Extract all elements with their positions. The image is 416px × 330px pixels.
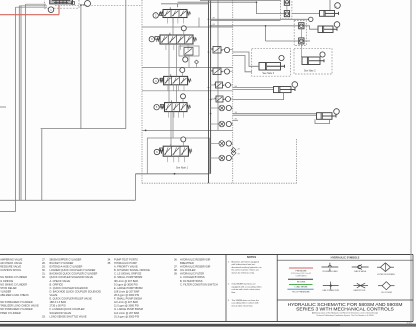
svg-text:cushion with check valve retur: cushion with check valve return [232,288,260,291]
svg-text:See Note 3: See Note 3 [263,72,275,75]
svg-text:42 L/min @ 207 BAR: 42 L/min @ 207 BAR [114,300,138,304]
svg-text:RETURN: RETURN [297,281,306,283]
svg-text:28.3 gpm @ 3000 PSI: 28.3 gpm @ 3000 PSI [114,293,139,297]
svg-text:28.: 28. [42,261,46,265]
svg-text:NG SWING CYLINDER: NG SWING CYLINDER [0,282,27,286]
svg-text:F. LOADER QUICK COUPLER: F. LOADER QUICK COUPLER [50,307,85,311]
svg-text:LOAD SENSE SHUTTLE VALVE: LOAD SENSE SHUTTLE VALVE [50,314,87,318]
svg-text:directional auxiliary hydrauli: directional auxiliary hydraulics on [232,266,262,269]
svg-text:NG SWING CYLINDER: NG SWING CYLINDER [0,275,27,279]
svg-text:E. LARGE PUMP 580SM: E. LARGE PUMP 580SM [114,286,143,290]
svg-text:cascading orifice cushion with: cascading orifice cushion with [232,302,259,305]
svg-text:B8: B8 [213,24,215,26]
svg-text:37.: 37. [174,265,178,269]
svg-text:36.: 36. [174,257,178,261]
svg-text:30.: 30. [42,268,46,272]
svg-text:CUSHION SPOOL: CUSHION SPOOL [0,268,22,272]
svg-text:RESSURE VALVE: RESSURE VALVE [0,265,21,269]
svg-text:188.3 ± 3 BAR: 188.3 ± 3 BAR [50,300,67,304]
svg-text:31.: 31. [42,272,46,276]
svg-text:See Note 1: See Note 1 [176,167,189,170]
svg-text:STON RELIEF: STON RELIEF [0,286,17,290]
svg-text:with bi-directional and uni-: with bi-directional and uni- [232,263,256,266]
svg-text:OIL COOLER: OIL COOLER [180,268,196,272]
svg-text:The 580SM does not have the: The 580SM does not have the [232,299,260,302]
svg-text:E. QUICK COUPLER RELIEF VALVE: E. QUICK COUPLER RELIEF VALVE [50,297,93,301]
svg-text:CROSSING LINES: CROSSING LINES [322,271,338,273]
svg-text:ND STABILIZER CYLINDER: ND STABILIZER CYLINDER [0,300,33,304]
svg-text:2730 ± 50 PSI: 2730 ± 50 PSI [50,304,66,308]
svg-text:equipped with a cascading orif: equipped with a cascading orifice [232,285,263,288]
svg-text:ABILIZER LOAD CHECK: ABILIZER LOAD CHECK [0,293,29,297]
svg-text:YLINDER: YLINDER [0,289,11,293]
svg-text:HYDRAULIC FILTER: HYDRAULIC FILTER [180,272,204,276]
svg-text:580SM DIPPER CYLINDER: 580SM DIPPER CYLINDER [50,257,82,261]
svg-text:VALVE: VALVE [50,293,58,297]
svg-text:HYDRAULIC PUMP: HYDRAULIC PUMP [114,261,137,265]
svg-text:B9: B9 [238,154,240,156]
svg-text:BACKHOE QUICK COUPLER CYLINDER: BACKHOE QUICK COUPLER CYLINDER [50,272,98,276]
svg-text:PUMP TEST PORTS: PUMP TEST PORTS [114,257,138,261]
svg-text:A. CHECK VALVE: A. CHECK VALVE [50,279,71,283]
svg-text:34.: 34. [108,257,112,261]
svg-text:OIL COOLER: OIL COOLER [381,292,393,294]
svg-text:AD CHECK VALVE: AD CHECK VALVE [0,261,22,265]
svg-text:SERIES 3 WITH MECHANICAL CONTR: SERIES 3 WITH MECHANICAL CONTROLS [296,306,394,312]
svg-text:C. LS SIGNAL ORIFICE: C. LS SIGNAL ORIFICE [114,272,142,276]
svg-text:A8: A8 [213,17,215,20]
svg-text:35.: 35. [108,261,112,265]
svg-text:RESTRICTOR: RESTRICTOR [354,290,366,292]
svg-text:A. PRIORITY VALVE: A. PRIORITY VALVE [114,265,138,269]
svg-text:31.3 gpm @ 3000 PSI: 31.3 gpm @ 3000 PSI [114,314,139,318]
svg-text:B. FILTER BYPASS: B. FILTER BYPASS [180,279,203,283]
svg-text:EXTEND-A-HOE CYLINDER: EXTEND-A-HOE CYLINDER [50,265,83,269]
svg-text:flow.: flow. [232,292,237,294]
svg-text:LOAD SENSE: LOAD SENSE [295,286,308,289]
svg-text:HYDRAULIC RESERVOIR: HYDRAULIC RESERVOIR [180,265,211,269]
svg-text:NOTES: NOTES [247,255,256,259]
svg-text:BREATHER: BREATHER [180,261,194,265]
svg-text:C. QUICK COUPLER SOLENOID: C. QUICK COUPLER SOLENOID [50,286,88,290]
svg-text:38.: 38. [174,268,178,272]
svg-text:A. COOLER BYPASS: A. COOLER BYPASS [180,275,205,279]
svg-text:FILTER OR SCREEN: FILTER OR SCREEN [377,274,395,276]
svg-text:11.0 gpm @ 3000 PSI: 11.0 gpm @ 3000 PSI [114,304,139,308]
svg-text:38 L/min @ 207 BAR: 38 L/min @ 207 BAR [114,279,138,283]
svg-text:check valve return flow.: check valve return flow. [232,304,254,307]
svg-text:TABILIZER LOAD CHECK VALVE: TABILIZER LOAD CHECK VALVE [0,304,39,308]
svg-text:the same machine. Valves are: the same machine. Valves are [232,269,260,272]
svg-text:27.: 27. [42,257,46,261]
svg-text:9.3 gpm @ 3000 PSI: 9.3 gpm @ 3000 PSI [114,282,138,286]
svg-text:D. BACKHOE QUICK COUPLER SOLEN: D. BACKHOE QUICK COUPLER SOLENOID [50,289,102,293]
svg-text:B. ORIFICE: B. ORIFICE [50,282,64,286]
svg-text:AMPERING VALVE: AMPERING VALVE [0,257,22,261]
svg-text:613090: 613090 [407,322,412,324]
svg-text:F. SMALL PUMP 590SM: F. SMALL PUMP 590SM [114,297,142,301]
svg-text:HYDRAULIC SYMBOLS: HYDRAULIC SYMBOLS [331,255,360,259]
svg-text:ND STABILIZER CYLINDER: ND STABILIZER CYLINDER [0,307,33,311]
svg-text:Only 580SM machines are: Only 580SM machines are [232,283,257,286]
svg-text:114 L/min @ 207 BAR: 114 L/min @ 207 BAR [114,311,139,315]
svg-text:A9: A9 [238,148,240,151]
svg-text:G ORIFICE: G ORIFICE [0,279,13,283]
svg-text:HYDRAULIC RESERVOIR: HYDRAULIC RESERVOIR [180,257,211,261]
svg-text:LOADER QUICK COUPLER CYLINDER: LOADER QUICK COUPLER CYLINDER [50,268,96,272]
svg-text:33.: 33. [42,314,46,318]
svg-text:shown for reference only.: shown for reference only. [232,271,255,274]
svg-text:29.: 29. [42,265,46,269]
svg-text:QUICK COUPLER SOLENOID VALVE: QUICK COUPLER SOLENOID VALVE [50,275,94,279]
svg-text:COMPONENT: COMPONENT [296,275,307,277]
svg-text:See Note 2: See Note 2 [304,70,316,73]
svg-text:BUCKET CYLINDER: BUCKET CYLINDER [50,261,74,265]
svg-text:CHECK VALVE: CHECK VALVE [354,270,367,273]
svg-text:Machines will not be equipped: Machines will not be equipped [232,260,259,263]
svg-text:LINE CONNECTION: LINE CONNECTION [322,290,339,292]
svg-text:G. LARGE PUMP 590SM: G. LARGE PUMP 590SM [114,307,143,311]
svg-text:SOLENOID VALVE: SOLENOID VALVE [50,311,72,315]
svg-text:PPER CYLINDER: PPER CYLINDER [0,311,21,315]
svg-text:B. DYNAMIC SIGNAL ORIFICE: B. DYNAMIC SIGNAL ORIFICE [114,268,150,272]
svg-text:Technical Publications Distrib: Technical Publications Distribution Syst… [316,314,373,317]
svg-text:32.: 32. [42,275,46,279]
svg-text:PRESSURE: PRESSURE [295,270,307,272]
svg-text:C. FILTER CONDITION SWITCH: C. FILTER CONDITION SWITCH [180,282,218,286]
svg-text:108 L/min @ 207 BAR: 108 L/min @ 207 BAR [114,289,140,293]
svg-text:D. SMALL PUMP 580SM: D. SMALL PUMP 580SM [114,275,142,279]
svg-text:39.: 39. [174,272,178,276]
svg-text:PILOT PRESSURE: PILOT PRESSURE [292,292,310,294]
